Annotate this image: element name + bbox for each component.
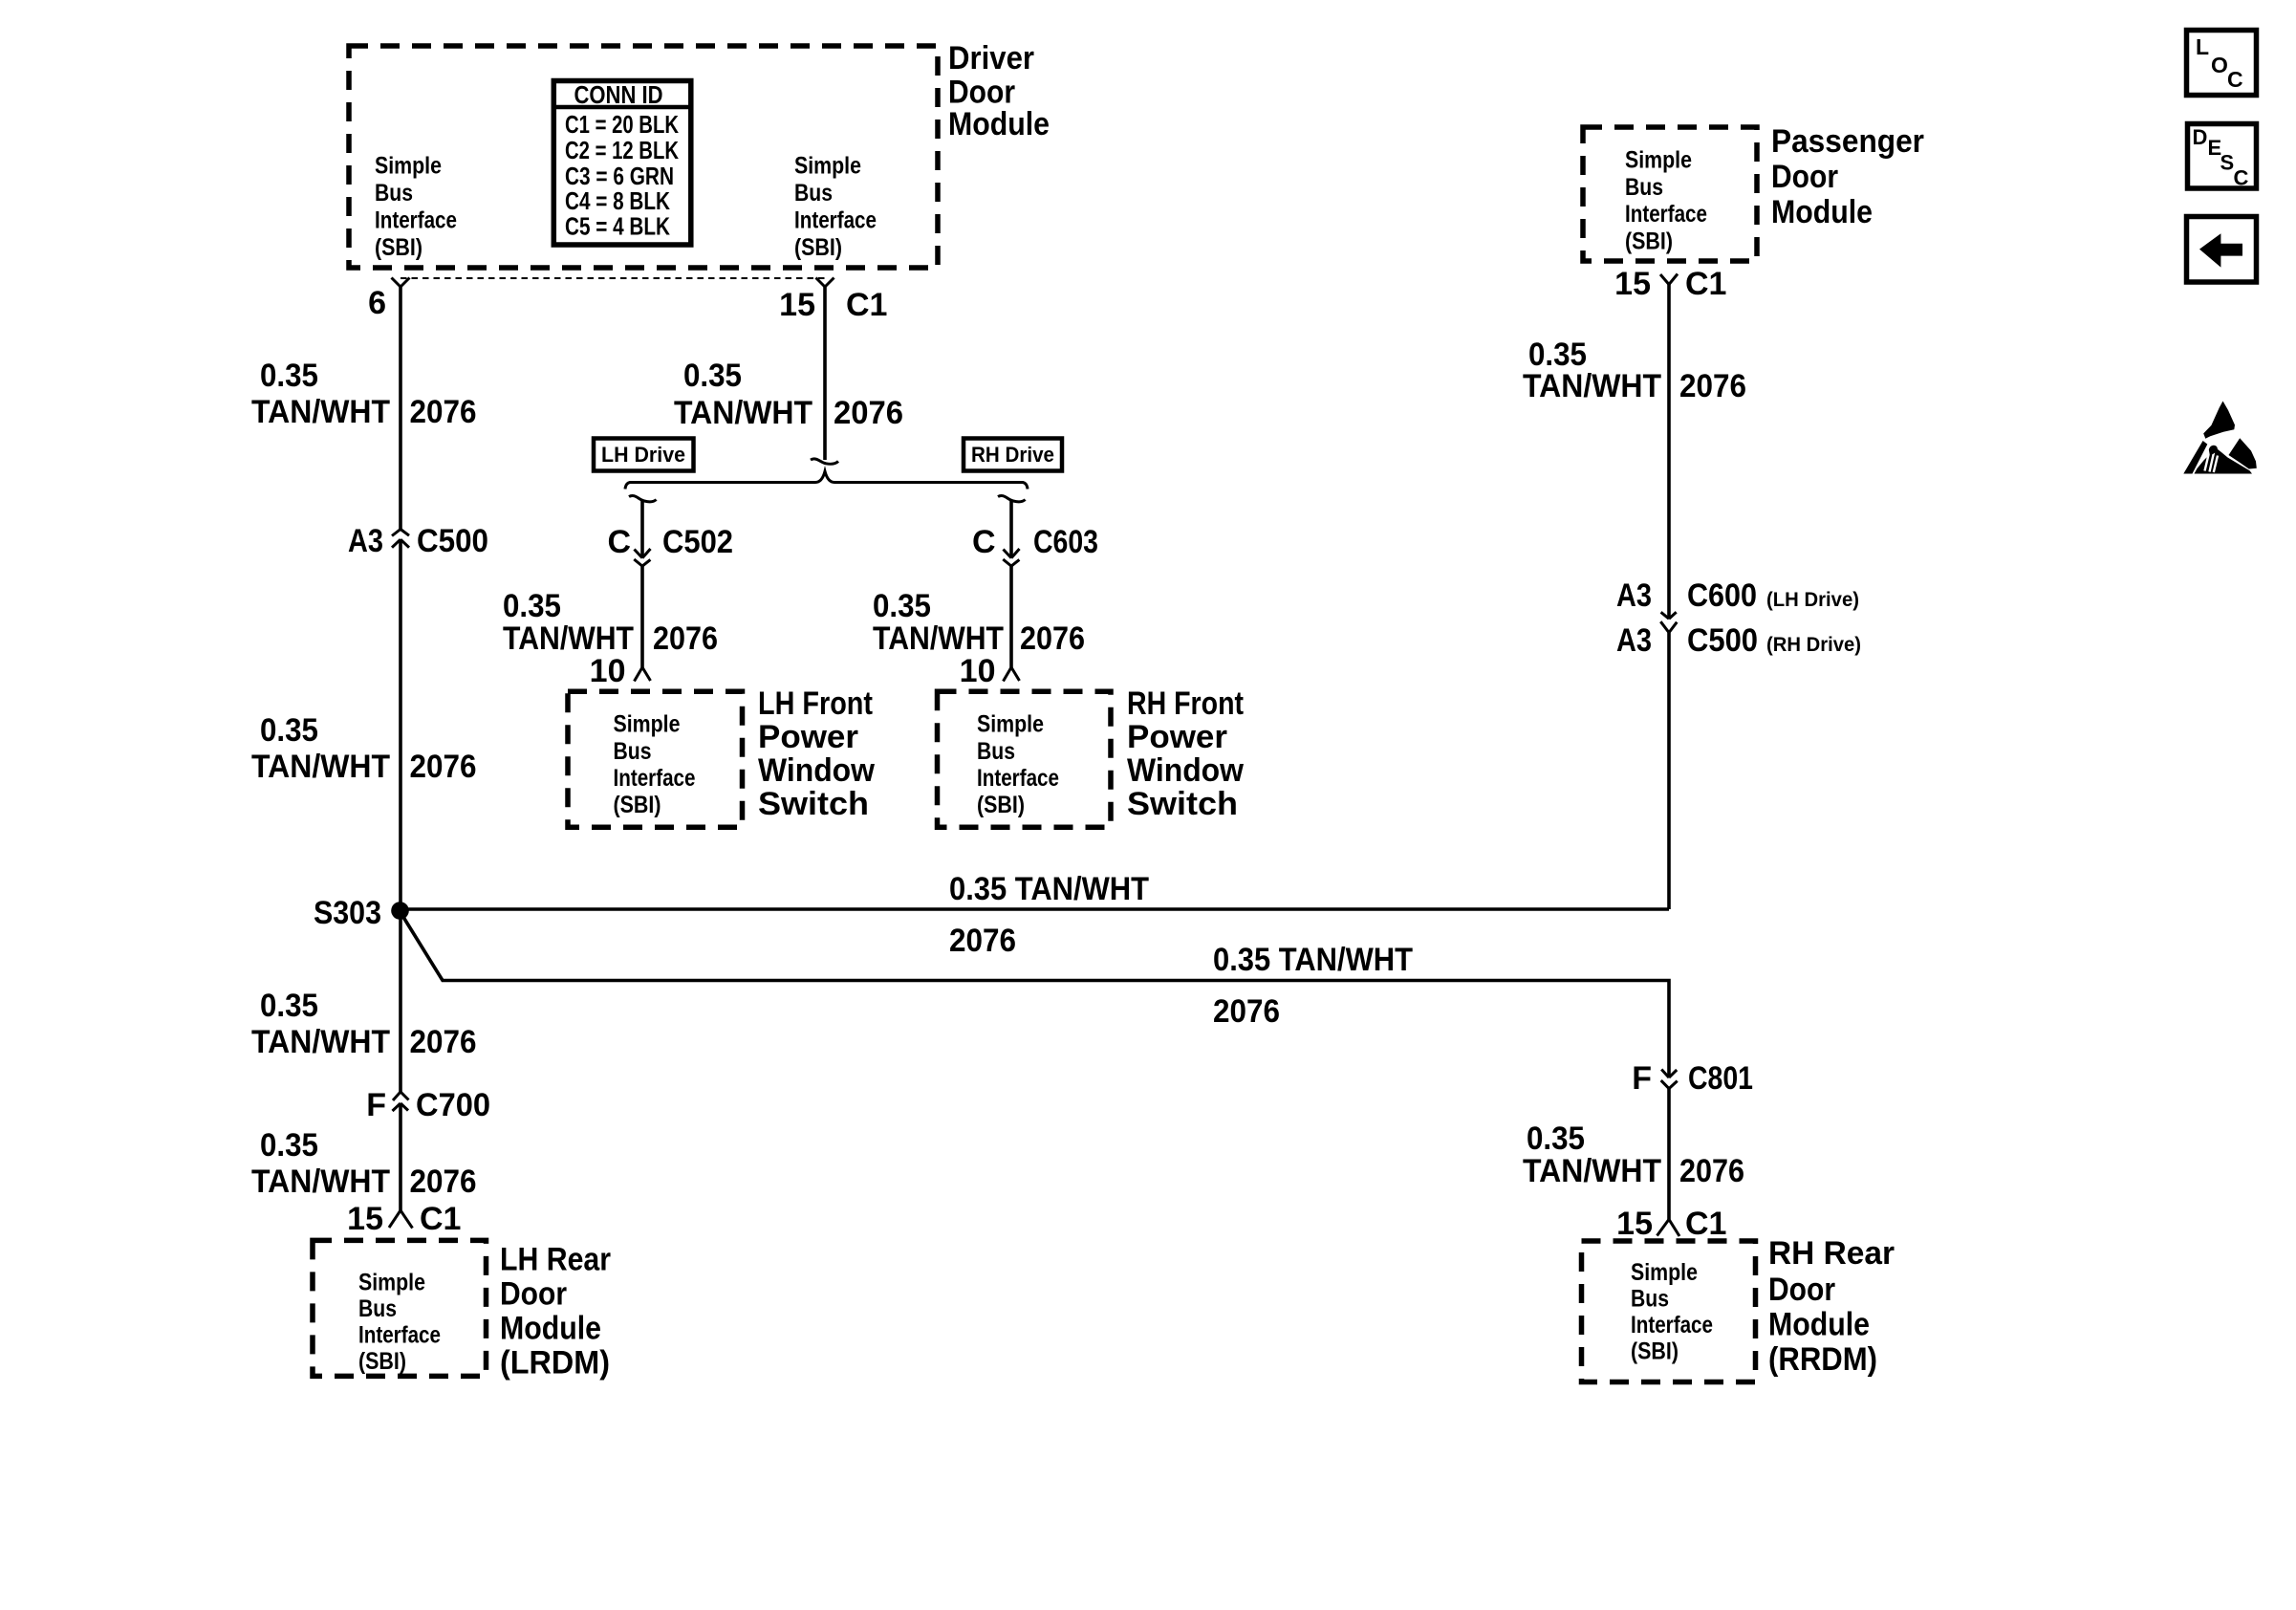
svg-text:0.35: 0.35 bbox=[1527, 1120, 1585, 1157]
wire label 0.35 TAN/WHT 2076 (block3) bbox=[251, 988, 477, 1060]
svg-text:2076: 2076 bbox=[949, 923, 1016, 959]
svg-text:Interface: Interface bbox=[977, 765, 1059, 792]
svg-text:15: 15 bbox=[1614, 266, 1651, 302]
svg-text:(SBI): (SBI) bbox=[375, 234, 422, 261]
svg-text:S303: S303 bbox=[314, 895, 381, 931]
svg-text:(SBI): (SBI) bbox=[977, 792, 1025, 818]
module box: LH Rear Door Module (dashed) bbox=[313, 1240, 487, 1376]
svg-text:C1: C1 bbox=[846, 287, 887, 323]
svg-text:C600: C600 bbox=[1687, 577, 1757, 614]
wire: DDM pin15 down bbox=[823, 287, 827, 460]
svg-text:Passenger: Passenger bbox=[1771, 123, 1924, 160]
svg-text:Bus: Bus bbox=[977, 738, 1015, 765]
svg-text:C5 = 4 BLK: C5 = 4 BLK bbox=[565, 212, 670, 241]
label box: RH Drive bbox=[964, 439, 1062, 471]
svg-text:RH Front: RH Front bbox=[1127, 685, 1244, 722]
connector C C603 (in-line, downward) bbox=[1003, 549, 1019, 566]
svg-text:15: 15 bbox=[779, 287, 815, 323]
svg-text:Simple: Simple bbox=[794, 153, 861, 180]
svg-text:0.35: 0.35 bbox=[873, 588, 931, 624]
svg-text:2076: 2076 bbox=[410, 749, 477, 785]
svg-text:F: F bbox=[366, 1087, 386, 1123]
svg-text:Interface: Interface bbox=[358, 1322, 441, 1349]
svg-text:TAN/WHT: TAN/WHT bbox=[1523, 1153, 1661, 1189]
svg-text:L: L bbox=[2196, 34, 2209, 59]
icon: ESD sensitive device symbol bbox=[2183, 402, 2257, 474]
svg-text:Simple: Simple bbox=[375, 153, 442, 180]
svg-text:C: C bbox=[607, 524, 631, 560]
module box: Passenger Door Module (dashed) bbox=[1583, 127, 1757, 261]
svg-text:2076: 2076 bbox=[1213, 993, 1280, 1030]
svg-text:Bus: Bus bbox=[1625, 174, 1663, 201]
connector C C502 (in-line, downward) bbox=[634, 549, 650, 566]
svg-text:2076: 2076 bbox=[1679, 1153, 1744, 1189]
svg-text:LH Rear: LH Rear bbox=[500, 1242, 611, 1278]
svg-text:Interface: Interface bbox=[1625, 201, 1707, 228]
svg-text:0.35: 0.35 bbox=[260, 1127, 318, 1164]
svg-text:TAN/WHT: TAN/WHT bbox=[873, 620, 1004, 657]
svg-text:0.35: 0.35 bbox=[503, 588, 561, 624]
svg-text:D: D bbox=[2193, 125, 2208, 149]
svg-text:Module: Module bbox=[500, 1311, 601, 1347]
splice S303 bbox=[391, 902, 409, 920]
svg-text:LH Front: LH Front bbox=[758, 685, 873, 722]
svg-text:6: 6 bbox=[368, 285, 386, 321]
wire label 0.35 TAN/WHT 2076 (RRDM drop) bbox=[1523, 1120, 1744, 1189]
module box: RH Rear Door Module (dashed) bbox=[1582, 1241, 1756, 1382]
pin 6 fork bbox=[392, 278, 410, 288]
svg-text:2076: 2076 bbox=[1020, 620, 1085, 657]
svg-text:Module: Module bbox=[1771, 194, 1873, 230]
label box: LH Drive bbox=[594, 439, 694, 471]
module box: RH Front Power Window Switch (dashed) bbox=[938, 691, 1112, 827]
wire label 0.35 TAN/WHT 2076 (center block) bbox=[674, 358, 903, 431]
svg-text:Interface: Interface bbox=[1631, 1312, 1713, 1338]
svg-text:Bus: Bus bbox=[375, 180, 413, 207]
svg-text:C: C bbox=[972, 524, 996, 560]
wire: C600/C500 down to junction with S303 wire bbox=[1667, 633, 1671, 909]
svg-text:TAN/WHT: TAN/WHT bbox=[251, 749, 390, 785]
wire: C801 down to RRDM bbox=[1667, 1089, 1671, 1220]
hook at top of LH branch bbox=[629, 495, 657, 501]
svg-text:Door: Door bbox=[1771, 159, 1838, 195]
svg-text:A3: A3 bbox=[348, 523, 383, 559]
wire label 0.35 TAN/WHT 2076 (block2) bbox=[251, 712, 477, 785]
svg-text:2076: 2076 bbox=[410, 1024, 477, 1060]
svg-text:Power: Power bbox=[758, 719, 858, 755]
svg-text:TAN/WHT: TAN/WHT bbox=[503, 620, 634, 657]
svg-text:(SBI): (SBI) bbox=[358, 1348, 406, 1375]
svg-text:(RH Drive): (RH Drive) bbox=[1766, 634, 1861, 656]
wire label 0.35 TAN/WHT 2076 (block4) bbox=[251, 1127, 477, 1200]
pin 10 fork (RH switch) bbox=[1004, 667, 1020, 682]
svg-text:Switch: Switch bbox=[758, 786, 869, 822]
svg-text:(LH Drive): (LH Drive) bbox=[1766, 589, 1859, 611]
svg-text:C500: C500 bbox=[1687, 622, 1758, 659]
svg-text:2076: 2076 bbox=[834, 395, 903, 431]
svg-text:C801: C801 bbox=[1688, 1060, 1753, 1097]
svg-text:CONN ID: CONN ID bbox=[574, 80, 663, 109]
svg-text:0.35 TAN/WHT: 0.35 TAN/WHT bbox=[1213, 942, 1413, 978]
svg-text:C4 = 8 BLK: C4 = 8 BLK bbox=[565, 186, 670, 215]
svg-text:Power: Power bbox=[1127, 719, 1227, 755]
hook (break) at end of center wire bbox=[811, 459, 838, 464]
icon: DESC box bbox=[2188, 124, 2257, 190]
pin 10 fork (LH switch) bbox=[635, 667, 651, 682]
wire label 0.35 TAN/WHT 2076 (LH branch) bbox=[503, 588, 718, 657]
wire: LH branch lower bbox=[640, 566, 644, 667]
svg-text:TAN/WHT: TAN/WHT bbox=[251, 394, 390, 430]
CONN ID table bbox=[553, 80, 691, 245]
svg-text:Interface: Interface bbox=[375, 207, 457, 234]
wire label 0.35 TAN/WHT 2076 (block1) bbox=[251, 358, 477, 430]
svg-text:Door: Door bbox=[948, 75, 1015, 111]
module box: Driver Door Module (dashed) bbox=[349, 46, 938, 268]
svg-text:Bus: Bus bbox=[794, 180, 833, 207]
svg-text:C: C bbox=[2234, 166, 2249, 190]
svg-text:TAN/WHT: TAN/WHT bbox=[251, 1024, 390, 1060]
svg-text:2076: 2076 bbox=[410, 394, 477, 430]
svg-text:TAN/WHT: TAN/WHT bbox=[674, 395, 812, 431]
svg-text:RH Rear: RH Rear bbox=[1768, 1235, 1895, 1272]
svg-text:Module: Module bbox=[948, 106, 1050, 142]
svg-text:C1: C1 bbox=[1685, 266, 1726, 302]
svg-text:C: C bbox=[2227, 67, 2243, 92]
label: Driver Door Module bbox=[948, 40, 1050, 142]
svg-text:2076: 2076 bbox=[1679, 368, 1746, 404]
svg-text:2076: 2076 bbox=[653, 620, 718, 657]
wire: RH branch upper bbox=[1009, 501, 1013, 558]
pin 15 fork (PDM) bbox=[1660, 274, 1678, 285]
svg-text:(LRDM): (LRDM) bbox=[500, 1345, 610, 1382]
svg-text:Simple: Simple bbox=[614, 711, 681, 738]
wire: LH branch upper bbox=[640, 501, 644, 558]
svg-text:Window: Window bbox=[1127, 752, 1245, 789]
connector F C700 (in-line, upward) bbox=[393, 1092, 409, 1111]
svg-text:Simple: Simple bbox=[358, 1270, 425, 1296]
svg-text:Door: Door bbox=[1768, 1272, 1835, 1308]
pin 15 fork (DDM) bbox=[816, 278, 834, 288]
svg-text:TAN/WHT: TAN/WHT bbox=[251, 1164, 390, 1200]
svg-text:Simple: Simple bbox=[1625, 147, 1692, 174]
connector face line (thin dashed) under DDM bbox=[401, 277, 825, 279]
connector A3 C600 (LH Drive) / A3 C500 (RH Drive) (in-line, downward) bbox=[1660, 612, 1677, 632]
label: Simple Bus Interface (SBI) right (inside DDM) bbox=[794, 153, 877, 262]
svg-text:Simple: Simple bbox=[1631, 1259, 1698, 1286]
icon: back arrow box bbox=[2187, 217, 2257, 283]
svg-text:10: 10 bbox=[590, 653, 626, 689]
svg-text:0.35: 0.35 bbox=[260, 988, 318, 1024]
wire label 0.35 TAN/WHT 2076 (passenger) bbox=[1523, 337, 1746, 404]
svg-text:A3: A3 bbox=[1616, 577, 1652, 614]
svg-text:(SBI): (SBI) bbox=[794, 234, 842, 261]
svg-text:Door: Door bbox=[500, 1276, 567, 1313]
wire: DDM pin6 down to connector C500 bbox=[399, 287, 402, 530]
brace (harness option) bbox=[625, 471, 1028, 490]
svg-text:Driver: Driver bbox=[948, 40, 1034, 76]
module box: LH Front Power Window Switch (dashed) bbox=[568, 691, 743, 827]
svg-text:Simple: Simple bbox=[977, 711, 1044, 738]
svg-text:(SBI): (SBI) bbox=[1625, 228, 1673, 254]
svg-text:(RRDM): (RRDM) bbox=[1768, 1341, 1877, 1378]
wire label 0.35 TAN/WHT 2076 (RH branch) bbox=[873, 588, 1085, 657]
svg-text:C502: C502 bbox=[662, 524, 733, 560]
svg-text:Module: Module bbox=[1768, 1307, 1870, 1343]
label: Simple Bus Interface (SBI) left (inside DDM) bbox=[375, 153, 457, 262]
pin 15 fork (RRDM) bbox=[1657, 1219, 1680, 1236]
svg-text:Bus: Bus bbox=[358, 1295, 397, 1322]
svg-text:LH Drive: LH Drive bbox=[601, 443, 685, 467]
wire: RH branch lower bbox=[1009, 566, 1013, 667]
svg-text:F: F bbox=[1632, 1060, 1652, 1097]
wire: C500 down to S303 bbox=[399, 539, 402, 909]
pin 15 fork (LRDM) bbox=[389, 1210, 413, 1229]
svg-text:C1: C1 bbox=[420, 1201, 461, 1237]
svg-text:2076: 2076 bbox=[410, 1164, 477, 1200]
svg-text:0.35 TAN/WHT: 0.35 TAN/WHT bbox=[949, 871, 1149, 907]
svg-text:Bus: Bus bbox=[1631, 1286, 1669, 1313]
svg-text:10: 10 bbox=[960, 653, 996, 689]
svg-text:Interface: Interface bbox=[794, 207, 877, 234]
svg-text:15: 15 bbox=[347, 1201, 383, 1237]
svg-text:0.35: 0.35 bbox=[260, 358, 318, 394]
svg-text:S: S bbox=[2220, 151, 2235, 175]
svg-text:Interface: Interface bbox=[614, 765, 696, 792]
svg-text:0.35: 0.35 bbox=[260, 712, 318, 749]
svg-text:RH Drive: RH Drive bbox=[971, 443, 1054, 467]
icon: LOC box bbox=[2187, 31, 2257, 96]
svg-text:(SBI): (SBI) bbox=[614, 792, 661, 818]
svg-text:C603: C603 bbox=[1033, 524, 1098, 560]
wire: PDM pin15 down to C600/C500 bbox=[1667, 285, 1671, 620]
svg-text:C500: C500 bbox=[417, 523, 488, 559]
svg-text:Window: Window bbox=[758, 752, 876, 789]
wire: S303 to passenger (horizontal) bbox=[401, 907, 1670, 911]
svg-text:C2 = 12 BLK: C2 = 12 BLK bbox=[565, 136, 679, 164]
svg-text:O: O bbox=[2211, 53, 2228, 77]
svg-text:TAN/WHT: TAN/WHT bbox=[1523, 368, 1661, 404]
wire: C700 down to LRDM bbox=[399, 1103, 402, 1210]
svg-text:(SBI): (SBI) bbox=[1631, 1338, 1679, 1365]
svg-text:Switch: Switch bbox=[1127, 786, 1238, 822]
connector A3 C500 (in-line, upward) bbox=[392, 530, 409, 548]
svg-text:15: 15 bbox=[1616, 1206, 1653, 1242]
svg-text:C1: C1 bbox=[1685, 1206, 1726, 1242]
svg-text:C1 = 20 BLK: C1 = 20 BLK bbox=[565, 110, 679, 139]
hook at top of RH branch bbox=[998, 495, 1026, 501]
svg-text:C700: C700 bbox=[416, 1087, 490, 1123]
wire: S303 diagonal + horizontal to RRDM drop bbox=[401, 914, 1669, 1077]
connector F C801 (in-line, downward) bbox=[1661, 1070, 1678, 1089]
wire: S303 down to C700 bbox=[399, 909, 402, 1092]
svg-text:Bus: Bus bbox=[614, 738, 652, 765]
svg-text:0.35: 0.35 bbox=[683, 358, 742, 394]
svg-text:A3: A3 bbox=[1616, 622, 1652, 659]
